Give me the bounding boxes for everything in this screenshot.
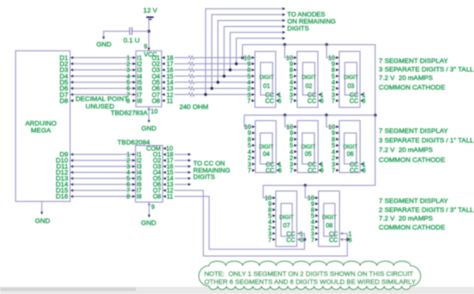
pin 5 U2 input I5 — [132, 177, 135, 180]
node anode rail row2 — [374, 114, 377, 117]
svg-text:01: 01 — [263, 83, 270, 90]
display DIGIT 02 — [297, 51, 318, 107]
resistor R4 240ohm — [189, 74, 195, 77]
pin 7 U2 input I7 — [132, 189, 135, 192]
op U2 TBD62084 box — [136, 146, 163, 203]
scrollbar track — [0, 287, 474, 294]
node anode drop digit03 — [325, 43, 328, 46]
wire segment riser anode 4 — [218, 21, 284, 83]
pin 18 U2 output O1 — [163, 153, 166, 156]
node digit08 CC junction — [346, 238, 349, 241]
svg-text:DIGITS: DIGITS — [287, 26, 309, 33]
svg-text:7: 7 — [247, 98, 251, 105]
pin 2 U1 input I2 — [133, 62, 136, 65]
wire anode rail row2 — [244, 115, 375, 127]
svg-text:DIGIT: DIGIT — [301, 145, 316, 151]
svg-text:06: 06 — [347, 151, 354, 158]
svg-text:ARDUINO: ARDUINO — [25, 120, 56, 127]
wire U2 O8 to digit07 CC — [174, 196, 304, 249]
wire D7 to U1 — [74, 94, 136, 96]
svg-text:03: 03 — [347, 83, 354, 90]
pin 3 U1 input I3 — [133, 69, 136, 72]
svg-text:11: 11 — [167, 194, 174, 201]
pin 3 U2 input I3 — [132, 165, 135, 168]
resistor R2 240ohm — [189, 62, 195, 65]
svg-text:GND: GND — [35, 218, 50, 225]
svg-text:O8: O8 — [153, 194, 162, 201]
display DIGIT 05 — [297, 121, 318, 173]
pin 14 U2 output O5 — [163, 177, 166, 180]
wire 12V to VCC — [148, 20, 150, 51]
wire U1 gnd — [148, 107, 150, 120]
svg-text:7: 7 — [290, 168, 294, 175]
svg-text:CC: CC — [350, 168, 359, 175]
pin D4 arduino — [70, 75, 73, 78]
svg-text:COMMON CATHODE: COMMON CATHODE — [379, 157, 446, 164]
pin D5 arduino — [70, 81, 73, 84]
pin 16 U1 output O3 — [162, 69, 165, 72]
svg-text:9: 9 — [144, 44, 148, 51]
pin 18 U1 output O1 — [162, 56, 165, 59]
svg-text:GND: GND — [141, 125, 156, 132]
svg-text:02: 02 — [305, 83, 312, 90]
wire cap to junction — [132, 30, 148, 32]
resistor R5 240ohm — [189, 81, 195, 84]
pin D10 arduino — [70, 159, 73, 162]
svg-text:7 SEGMENT DISPLAY: 7 SEGMENT DISPLAY — [379, 58, 449, 65]
svg-text:DIGIT: DIGIT — [302, 75, 317, 81]
pin 12 U1 output O7 — [162, 93, 165, 96]
svg-text:6: 6 — [320, 98, 324, 105]
svg-text:05: 05 — [305, 151, 312, 158]
wire U1 O6 to resistor — [174, 87, 188, 89]
wire U2 O3 to cc arrow — [174, 165, 188, 167]
wire U2 gnd — [148, 202, 150, 215]
wire U1 O4 to resistor — [174, 75, 188, 77]
wire U1 O5 to resistor — [174, 81, 188, 83]
wire cap to ground — [104, 31, 130, 37]
svg-text:ON REMAINING: ON REMAINING — [287, 19, 335, 26]
svg-text:6: 6 — [278, 168, 282, 175]
svg-text:DECIMAL POINT: DECIMAL POINT — [75, 96, 128, 103]
display DIGIT 04 — [255, 121, 276, 173]
svg-text:7: 7 — [332, 168, 336, 175]
svg-text:240 OHM: 240 OHM — [179, 104, 208, 111]
pin D1 arduino — [70, 56, 73, 59]
ground arduino — [41, 212, 44, 215]
node anode drop digit06 — [325, 114, 328, 117]
wire arrow to anodes 5 — [282, 13, 285, 16]
pin D16 arduino — [70, 195, 73, 198]
wire anode chain main — [243, 45, 376, 198]
svg-text:3 SEPARATE DIGITS / 1" TALL: 3 SEPARATE DIGITS / 1" TALL — [379, 138, 474, 145]
wire arrow to anodes 2 — [282, 31, 285, 34]
wire arrow to cc 2 — [188, 159, 191, 162]
pin D14 arduino — [70, 183, 73, 186]
svg-text:DIGIT: DIGIT — [279, 215, 294, 221]
wire anode drop digit02 — [285, 45, 294, 58]
wire U1 O3 to resistor — [174, 69, 188, 71]
svg-text:6: 6 — [278, 98, 282, 105]
wire anode drop digit03 — [327, 45, 336, 58]
wire digit08 CC6 tap — [340, 239, 348, 241]
pin 15 U1 output O4 — [162, 75, 165, 78]
pin 15 U2 output O4 — [163, 171, 166, 174]
pin 10 U2 COM — [163, 147, 166, 150]
pin 4 U2 input I4 — [132, 171, 135, 174]
wire D11 to U2 — [74, 165, 136, 167]
svg-text:04: 04 — [263, 151, 270, 158]
svg-text:7 SEGMENT DISPLAY: 7 SEGMENT DISPLAY — [379, 198, 449, 205]
ground cap — [102, 37, 105, 40]
svg-text:TO ANODES: TO ANODES — [287, 12, 325, 19]
pin D9 arduino — [70, 153, 73, 156]
ground U2 — [148, 215, 151, 218]
svg-text:7.2 V 20 mAMPS: 7.2 V 20 mAMPS — [379, 216, 433, 223]
arduino mega A1 — [16, 51, 71, 202]
pin D7 arduino — [70, 93, 73, 96]
wire resistor R3 to digit01 — [194, 69, 251, 71]
ground U1 — [148, 120, 151, 123]
svg-text:7: 7 — [248, 168, 252, 175]
node riser1 tap — [235, 62, 238, 65]
wire arrow to cc 1 — [188, 153, 191, 156]
wire D16 to U2 — [74, 195, 136, 197]
svg-text:8: 8 — [126, 98, 130, 105]
pin 13 U1 output O6 — [162, 87, 165, 90]
node riser4 tap — [216, 81, 219, 84]
svg-text:7: 7 — [332, 98, 336, 105]
pin D15 arduino — [70, 189, 73, 192]
pin 14 U1 output O5 — [162, 81, 165, 84]
svg-text:7: 7 — [289, 98, 293, 105]
pin D3 arduino — [70, 69, 73, 72]
display DIGIT 06 — [339, 121, 360, 173]
pin 6 U2 input I6 — [132, 183, 135, 186]
wire anode drop digit08 — [305, 185, 315, 197]
wire U2 O6 to cc arrow — [174, 183, 188, 185]
svg-text:DIGIT: DIGIT — [259, 145, 274, 151]
svg-text:CC: CC — [329, 237, 338, 244]
node riser6 tap — [204, 93, 207, 96]
pin D2 arduino — [70, 62, 73, 65]
svg-text:8: 8 — [126, 194, 130, 201]
wire resistor R7 to digit01 — [194, 94, 251, 96]
wire arrow to anodes 3 — [282, 25, 285, 28]
wire D3 to U1 — [74, 69, 136, 71]
display DIGIT 08 — [319, 191, 340, 246]
pin D12 arduino — [70, 171, 73, 174]
wire segment riser anode 1 — [236, 38, 284, 64]
svg-text:DIGITS: DIGITS — [193, 174, 215, 181]
wire D5 to U1 — [74, 81, 136, 83]
wire resistor R4 to digit01 — [194, 75, 251, 77]
svg-text:TBD62783A: TBD62783A — [111, 110, 148, 117]
wire U2 O2 to cc arrow — [174, 159, 188, 161]
svg-text:7: 7 — [311, 237, 315, 244]
pin 11 U1 output O8 — [162, 99, 165, 102]
svg-text:07: 07 — [283, 223, 290, 230]
svg-text:08: 08 — [326, 223, 333, 230]
pin D8 arduino — [70, 99, 73, 102]
pin 9 U2 gnd — [148, 202, 151, 205]
wire anode drop digit05 — [285, 115, 294, 127]
wire U1 O2 to resistor — [174, 63, 188, 65]
svg-text:I8: I8 — [137, 194, 143, 201]
node riser3 tap — [223, 75, 226, 78]
svg-text:MEGA: MEGA — [31, 128, 51, 135]
wire arrow to cc 6 — [188, 183, 191, 186]
svg-text:CC: CC — [349, 98, 358, 105]
wire segment riser anode 5 — [212, 15, 284, 89]
svg-text:CC: CC — [265, 98, 274, 105]
pin 17 U2 output O2 — [163, 159, 166, 162]
wire D14 to U2 — [74, 183, 136, 185]
svg-text:DIGIT: DIGIT — [322, 215, 337, 221]
svg-text:7: 7 — [268, 237, 272, 244]
wire digit07 CC6 tap — [297, 239, 305, 241]
op U1 TBD62783A box — [136, 51, 162, 107]
node anode drop digit05 — [283, 114, 286, 117]
wire segment riser anode 6 — [206, 9, 284, 95]
node anode drop digit08 — [304, 184, 307, 187]
wire arduino gnd — [41, 201, 43, 211]
display DIGIT 01 — [255, 51, 276, 107]
wire D10 to U2 — [74, 159, 136, 161]
pin 11 U2 output O8 — [163, 195, 166, 198]
pin 10 U1 gnd — [148, 107, 151, 110]
wire D15 to U2 — [74, 189, 136, 191]
wire U1 O1 to resistor — [174, 57, 188, 59]
svg-text:0.1 U: 0.1 U — [123, 38, 139, 45]
svg-text:GND: GND — [96, 41, 111, 48]
svg-text:2 SEPARATE DIGITS / 3" TALL: 2 SEPARATE DIGITS / 3" TALL — [379, 207, 474, 214]
wire resistor R1 to digit01 — [194, 57, 251, 59]
wire D1 to U1 — [74, 57, 136, 59]
svg-text:10: 10 — [151, 108, 158, 115]
wire arrow to cc 5 — [188, 177, 191, 180]
svg-text:I8: I8 — [137, 98, 143, 105]
wire D12 to U2 — [74, 171, 136, 173]
svg-text:D16: D16 — [56, 194, 69, 201]
wire segment riser anode 2 — [230, 32, 284, 70]
pin 1 U1 input I1 — [133, 56, 136, 59]
wire resistor R6 to digit01 — [194, 87, 251, 89]
wire D4 to U1 — [74, 75, 136, 77]
wire arrow to anodes 6 — [282, 7, 285, 10]
svg-text:GND: GND — [141, 220, 156, 227]
resistor R1 240ohm — [189, 56, 195, 59]
wire U2 O4 to cc arrow — [174, 171, 188, 173]
wire U2 O5 to cc arrow — [174, 177, 188, 179]
svg-text:DIGIT: DIGIT — [259, 75, 274, 81]
wire arrow to cc 3 — [188, 165, 191, 168]
wire D2 to U1 — [74, 63, 136, 65]
svg-text:CC: CC — [286, 237, 295, 244]
svg-text:OTHER 6 SEGMENTS AND 6 DIGITS: OTHER 6 SEGMENTS AND 6 DIGITS WOULD BE W… — [204, 279, 416, 286]
svg-text:11: 11 — [167, 98, 174, 105]
node anode chain tap — [241, 56, 244, 59]
svg-text:6: 6 — [320, 168, 324, 175]
svg-text:CC: CC — [266, 168, 275, 175]
pin 6 U1 input I6 — [133, 87, 136, 90]
svg-text:COMMON CATHODE: COMMON CATHODE — [379, 225, 446, 232]
node anode drop digit02 — [283, 43, 286, 46]
wire U2 O1 to cc arrow — [174, 153, 188, 155]
pin 5 U1 input I5 — [133, 81, 136, 84]
node riser2 tap — [229, 68, 232, 71]
svg-text:DIGIT: DIGIT — [343, 145, 358, 151]
svg-text:6: 6 — [362, 168, 366, 175]
svg-text:7 SEGMENT DISPLAY: 7 SEGMENT DISPLAY — [379, 128, 449, 135]
pin 8 U1 input I8 — [133, 99, 136, 102]
pin D13 arduino — [70, 177, 73, 180]
pin 2 U2 input I2 — [132, 159, 135, 162]
wire resistor R5 to digit01 — [194, 81, 251, 83]
svg-text:CC: CC — [307, 98, 316, 105]
wire anode drop digit06 — [326, 115, 336, 127]
pin 4 U1 input I4 — [133, 75, 136, 78]
svg-text:3 SEPARATE DIGITS / 3" TALL: 3 SEPARATE DIGITS / 3" TALL — [379, 66, 474, 73]
wire arrow to anodes 1 — [282, 37, 285, 40]
resistor R7 240ohm — [189, 93, 195, 96]
pin D11 arduino — [70, 165, 73, 168]
wire D6 to U1 — [74, 87, 136, 89]
scrollbar thumb — [0, 287, 136, 291]
note cloud — [199, 261, 421, 289]
svg-text:O8: O8 — [152, 98, 161, 105]
node 12V-cap junction — [147, 30, 150, 33]
wire U1 O7 to resistor — [174, 94, 188, 96]
wire U2 O7 to digit08 CC — [174, 190, 347, 256]
pin 16 U2 output O3 — [163, 165, 166, 168]
wire D13 to U2 — [74, 177, 136, 179]
svg-text:9: 9 — [151, 204, 155, 211]
svg-text:7.2 V 20 mAMPS: 7.2 V 20 mAMPS — [379, 75, 433, 82]
svg-text:7.2 V 20 mAMPS: 7.2 V 20 mAMPS — [379, 147, 433, 154]
svg-text:6: 6 — [348, 237, 352, 244]
svg-text:DIGIT: DIGIT — [344, 75, 359, 81]
pin 12 U2 output O7 — [163, 189, 166, 192]
resistor R3 240ohm — [189, 68, 195, 71]
pin 9 U1 VCC — [148, 48, 151, 51]
display DIGIT 07 — [276, 191, 297, 246]
svg-text:6: 6 — [362, 98, 366, 105]
pin 8 U2 input I8 — [132, 195, 135, 198]
svg-text:D8: D8 — [59, 98, 68, 105]
svg-text:NOTE: ONLY 1 SEGMENT ON 2 DIG: NOTE: ONLY 1 SEGMENT ON 2 DIGITS SHOWN O… — [204, 271, 413, 278]
wire arrow to cc 4 — [188, 171, 191, 174]
capacitor C1 0.1U — [129, 27, 131, 35]
pin 17 U1 output O2 — [162, 62, 165, 65]
wire D9 to U2 — [74, 153, 136, 155]
resistor R6 240ohm — [189, 87, 195, 90]
display DIGIT 03 — [339, 51, 360, 107]
pin 7 U1 input I7 — [133, 93, 136, 96]
node digit07 CC junction — [303, 238, 306, 241]
wire resistor R2 to digit01 — [194, 63, 251, 65]
wire segment riser anode 3 — [224, 27, 284, 77]
pin D6 arduino — [70, 87, 73, 90]
pin 1 U2 input I1 — [132, 153, 135, 156]
svg-text:12 V: 12 V — [143, 7, 157, 14]
node riser5 tap — [210, 87, 213, 90]
svg-text:COMMON CATHODE: COMMON CATHODE — [379, 85, 446, 92]
svg-text:CC: CC — [308, 168, 317, 175]
pin 13 U2 output O6 — [163, 183, 166, 186]
wire arrow to anodes 4 — [282, 19, 285, 22]
